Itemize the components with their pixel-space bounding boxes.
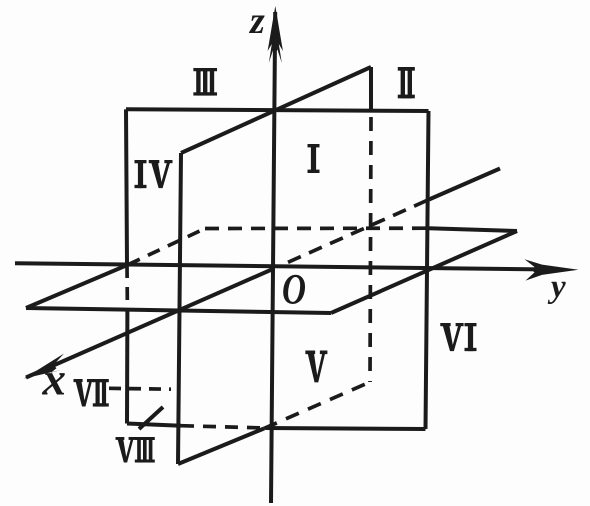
yz-plane rectangle left edge solid bottom part — [125, 309, 129, 424]
octant label VIII — [116, 437, 155, 463]
yz-plane rectangle right edge — [426, 111, 429, 429]
xz-plane top edge — [181, 67, 371, 153]
y-axis — [15, 263, 562, 269]
xz-plane back vertical edge solid top part — [369, 67, 373, 111]
yz-plane rectangle bottom edge solid right part — [266, 428, 426, 429]
yz-plane rectangle bottom edge hidden dashed part — [181, 426, 266, 428]
y-axis arrowhead — [525, 259, 579, 280]
svg-text:O: O — [282, 267, 306, 314]
x-axis solid front part — [26, 269, 274, 378]
octant label III — [193, 68, 217, 96]
xy-plane left edge hidden dashed part — [128, 229, 205, 265]
octant label I — [308, 144, 320, 173]
leader tick for VIII — [139, 407, 163, 429]
xy-plane back edge hidden dashed part — [205, 226, 429, 230]
svg-text:z: z — [248, 0, 265, 42]
x-axis arrowhead — [24, 354, 64, 379]
xy-plane back edge solid right part — [429, 228, 517, 231]
xy-plane front edge — [26, 308, 331, 313]
z-axis arrowhead — [268, 6, 283, 63]
octant label IV — [135, 160, 173, 188]
x-axis hidden dashed part — [288, 200, 429, 263]
octant label II — [398, 67, 415, 98]
yz-plane rectangle top edge — [126, 109, 429, 111]
octant label VI — [440, 323, 476, 351]
xz-plane bottom edge hidden dashed part — [264, 382, 370, 429]
octant label V — [305, 351, 327, 383]
z-axis — [271, 12, 275, 503]
svg-text:x: x — [42, 354, 67, 406]
yz-plane rectangle bottom edge solid left part — [127, 424, 181, 426]
xz-plane bottom edge solid front part — [178, 429, 264, 465]
xy-plane left edge solid part — [26, 265, 128, 308]
svg-text:y: y — [547, 269, 566, 305]
xy-plane right edge — [331, 231, 517, 313]
octant label VII — [73, 379, 108, 407]
dashed leader for VII — [109, 386, 171, 391]
x-axis solid back part — [429, 169, 500, 200]
yz-plane rectangle left edge solid top part — [126, 109, 127, 265]
xz-plane back vertical edge hidden dashed part — [370, 117, 371, 382]
yz-plane rectangle left edge hidden dashed part — [125, 265, 129, 309]
xz-plane front vertical edge — [178, 153, 181, 464]
